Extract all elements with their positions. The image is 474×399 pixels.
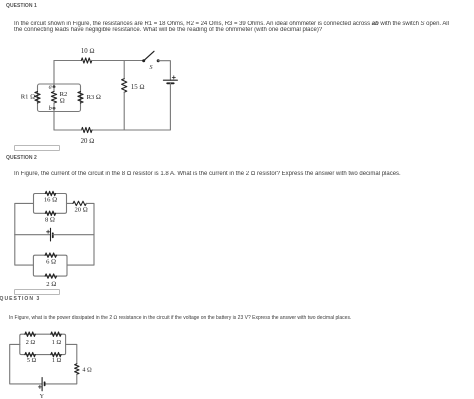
resistor 10 Ohm xyxy=(81,58,92,63)
svg-text:2 Ω: 2 Ω xyxy=(26,339,36,346)
battery Q1 long plate xyxy=(163,79,177,81)
battery Q1 short plate xyxy=(167,82,174,84)
wire middle vertical upper xyxy=(123,61,125,79)
wire left vertical lower xyxy=(53,108,55,130)
wire middle right of battery xyxy=(53,234,94,236)
wire left vertical lower xyxy=(15,235,34,265)
svg-text:8 Ω: 8 Ω xyxy=(45,216,55,223)
wire left loop Q3 xyxy=(10,344,42,384)
svg-text:16 Ω: 16 Ω xyxy=(44,197,57,204)
box around series resistors Q3 xyxy=(20,334,66,354)
svg-text:b: b xyxy=(49,105,52,112)
battery Q2 short plate xyxy=(52,233,54,237)
svg-text:1 Ω: 1 Ω xyxy=(52,357,62,364)
battery Q3 plus sign xyxy=(38,385,41,388)
svg-text:4 Ω: 4 Ω xyxy=(82,367,92,374)
resistor 1 Ohm bottom Q3 xyxy=(51,352,61,356)
resistor 16 Ohm xyxy=(45,191,55,195)
wire right from box xyxy=(67,202,74,204)
answer input question 1 xyxy=(14,145,60,151)
resistor 8 Ohm xyxy=(45,211,55,215)
svg-text:15 Ω: 15 Ω xyxy=(131,84,145,91)
wire node a to R2 xyxy=(53,87,55,92)
node b dot xyxy=(53,107,56,110)
battery Q2 plus sign xyxy=(47,230,50,233)
svg-text:2 Ω: 2 Ω xyxy=(46,281,56,288)
wire top-left horizontal xyxy=(54,60,81,62)
box around 6 and 2 Ohm xyxy=(33,255,67,276)
box around R1 R2 R3 xyxy=(38,84,81,112)
wire bottom left segment xyxy=(54,129,82,131)
resistor R1 xyxy=(35,92,40,104)
wire top to switch xyxy=(92,60,144,62)
svg-text:10 Ω: 10 Ω xyxy=(81,48,95,55)
resistor 20 Ohm xyxy=(82,127,93,132)
resistor 2 Ohm xyxy=(45,274,56,278)
battery Q3 long plate xyxy=(41,378,43,391)
wire 20 Ohm to right vertical xyxy=(86,203,94,234)
node a dot xyxy=(53,85,56,88)
switch right dot xyxy=(157,59,160,62)
wire bottom right segment xyxy=(92,129,124,131)
svg-text:5 Ω: 5 Ω xyxy=(27,357,37,364)
svg-text:20 Ω: 20 Ω xyxy=(81,138,95,145)
wire right upper Q3 xyxy=(66,344,77,363)
svg-text:Y: Y xyxy=(40,394,45,399)
wire left from box xyxy=(15,203,34,234)
answer input question 2 xyxy=(14,289,60,295)
battery Q3 short plate xyxy=(44,382,46,385)
resistor 20 Ohm Q2 xyxy=(73,201,86,205)
resistor 4 Ohm Q3 xyxy=(75,364,79,375)
svg-text:R1 Ω: R1 Ω xyxy=(21,94,35,101)
resistor 1 Ohm top Q3 xyxy=(51,332,61,336)
svg-text:S: S xyxy=(150,65,153,71)
wire switch to right corner xyxy=(158,61,170,80)
wire right vertical lower xyxy=(67,235,94,265)
switch S blade xyxy=(144,51,154,60)
switch pivot dot xyxy=(142,59,145,62)
resistor 6 Ohm xyxy=(45,253,56,257)
wire middle left of battery xyxy=(15,234,51,236)
svg-text:R3 Ω: R3 Ω xyxy=(87,94,101,101)
resistor 2 Ohm Q3 xyxy=(25,332,35,336)
svg-text:6 Ω: 6 Ω xyxy=(46,258,56,265)
wire middle vertical lower xyxy=(123,92,125,130)
resistor R3 xyxy=(78,92,83,104)
battery Q1 plus sign xyxy=(172,76,175,79)
svg-text:a: a xyxy=(49,84,52,91)
box around 16 and 8 Ohm xyxy=(34,194,67,214)
svg-text:1 Ω: 1 Ω xyxy=(52,339,62,346)
wire left vertical upper xyxy=(53,61,55,87)
wire R2 to node b xyxy=(53,103,55,108)
wire right lower Q3 xyxy=(45,374,77,384)
wire battery to bottom right corner xyxy=(124,83,170,130)
resistor 5 Ohm Q3 xyxy=(25,352,35,356)
svg-text:Ω: Ω xyxy=(60,98,65,105)
svg-text:20 Ω: 20 Ω xyxy=(75,207,88,214)
resistor 15 Ohm xyxy=(122,79,127,93)
battery Q2 long plate xyxy=(50,228,52,241)
resistor R2 xyxy=(51,92,56,104)
